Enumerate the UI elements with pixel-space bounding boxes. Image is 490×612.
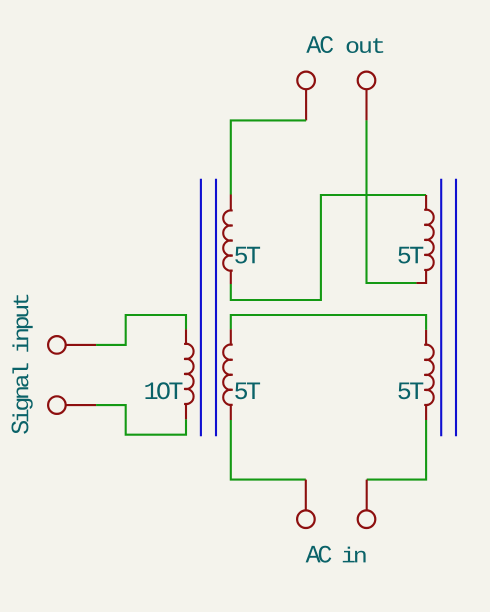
label 5T lower-right: [398, 383, 423, 400]
core bar right transformer, inner: [440, 179, 442, 437]
label "AC out": [306, 36, 383, 53]
terminal circle AC in right: [358, 510, 376, 528]
wire lower loop top (L4 to L5): [231, 315, 426, 330]
label 5T lower-left: [235, 383, 260, 400]
winding L3 (10T control, bumps right): [184, 329, 193, 419]
winding L4 (5T, lower left, bumps left): [223, 329, 232, 420]
pin stub signal lower: [66, 404, 96, 406]
wire L2 bottom to AC out right: [367, 120, 417, 283]
wire L4 bottom to AC in left: [231, 420, 306, 480]
label 5T upper-right: [398, 247, 423, 264]
winding L5 (5T, lower right, bumps right): [424, 330, 433, 420]
pin stub AC out right: [365, 90, 367, 121]
label "Signal input" (rotated): [12, 295, 33, 434]
pin stub signal upper: [66, 344, 96, 346]
terminal circle AC in left: [297, 510, 315, 528]
wire AC out left to winding L1 top: [231, 120, 306, 194]
winding L2 (5T, upper right, bumps right): [416, 195, 433, 283]
wire L1 bottom to L2 top: [231, 195, 426, 300]
label 5T upper-left: [235, 247, 260, 264]
wire L5 bottom to AC in right: [367, 420, 426, 480]
label 10T: [145, 382, 182, 399]
pin stub AC in left: [305, 480, 307, 510]
pin stub AC out left: [305, 90, 307, 121]
terminal circle signal upper: [48, 336, 66, 354]
terminal circle AC out left: [297, 72, 315, 90]
core bar left transformer, outer: [200, 179, 202, 437]
label "AC in": [306, 546, 366, 563]
core bar left transformer, inner: [215, 179, 217, 437]
terminal circle signal lower: [48, 396, 66, 414]
wire signal upper to winding L3 top: [96, 315, 186, 345]
winding L1 (5T, upper left, bumps left): [223, 195, 232, 285]
terminal circle AC out right: [358, 72, 376, 90]
core bar right transformer, outer: [455, 179, 457, 437]
wire signal lower to winding L3 bottom: [96, 405, 186, 435]
pin stub AC in right: [366, 480, 368, 510]
